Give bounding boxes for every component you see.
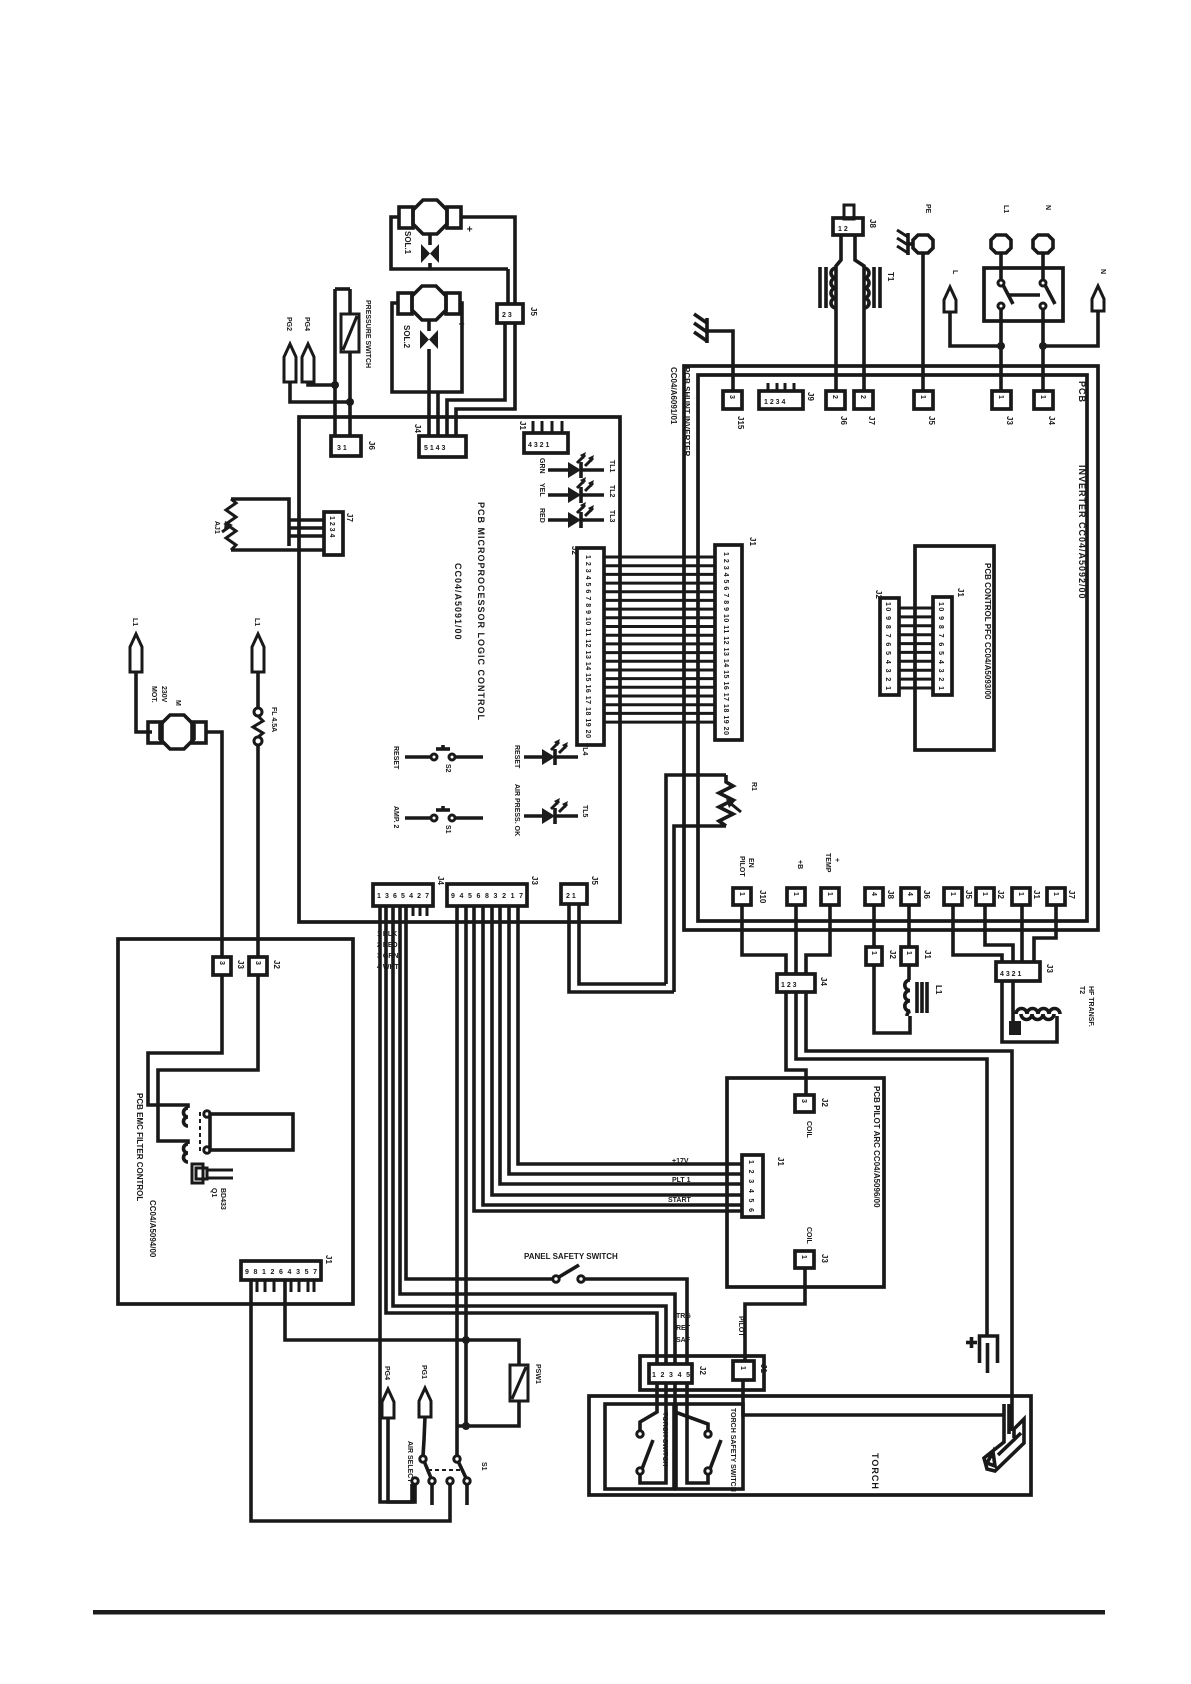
svg-text:3: 3: [728, 395, 735, 399]
svg-text:J7: J7: [867, 416, 876, 425]
svg-text:J8: J8: [886, 890, 895, 899]
svg-text:TORCH: TORCH: [870, 1453, 880, 1490]
connector B4: [865, 888, 883, 905]
connector B1: [733, 888, 751, 905]
connector PFC right: [933, 597, 952, 695]
svg-text:J2: J2: [888, 950, 897, 959]
faston terminal PG2: [284, 344, 296, 382]
PCB inverter board inner outline: [698, 375, 1087, 921]
svg-text:J15: J15: [736, 416, 745, 430]
footer rule: [93, 1610, 1105, 1615]
svg-text:1 2 3: 1 2 3: [781, 982, 797, 989]
transformer T1 right winding: [864, 268, 869, 308]
wire B7 to J18 pin2: [985, 905, 1013, 962]
wire T2 core tap: [1011, 981, 1015, 1021]
pushbutton S1: [405, 806, 483, 821]
svg-text:YEL: YEL: [538, 483, 545, 497]
wire R1 top leg: [666, 775, 726, 984]
connector C3: [826, 391, 845, 409]
torch switch contacts: [637, 1431, 653, 1474]
wire D5 to inductor L2: [907, 965, 911, 980]
svg-text:PLT 1: PLT 1: [672, 1177, 691, 1184]
connector B3: [821, 888, 839, 905]
relay coil 1: [184, 1108, 189, 1126]
svg-text:START: START: [668, 1197, 692, 1204]
svg-text:3: 3: [218, 961, 225, 965]
svg-text:N: N: [1044, 205, 1051, 210]
transformer T1 core right: [874, 267, 880, 308]
wire switch pole2 to C7: [1041, 309, 1045, 391]
wire torch pin1 to torch switch top: [640, 1383, 657, 1430]
wire pot bottom lead: [231, 548, 324, 552]
faston terminal PG4: [302, 344, 314, 382]
connector C7: [1034, 391, 1053, 409]
svg-text:GRN: GRN: [538, 458, 545, 474]
torch safety switch box: [676, 1404, 743, 1489]
svg-text:L1: L1: [1002, 205, 1009, 213]
wire PG4 to S3 contact: [388, 1418, 415, 1502]
svg-text:J2: J2: [272, 960, 281, 969]
wire PSW1 bottom lead: [457, 1401, 519, 1426]
svg-text:M: M: [174, 700, 181, 706]
PCB EMC filter control board outline: [118, 939, 353, 1304]
svg-text:230V: 230V: [160, 686, 167, 703]
connector J9: [561, 884, 587, 904]
svg-text:10 9 8 7 6 5 4 3 2 1: 10 9 8 7 6 5 4 3 2 1: [884, 602, 891, 690]
torch connector housing: [640, 1356, 764, 1390]
connector J2 filter: [213, 957, 231, 975]
wire J10 pin1 to air switch: [251, 1280, 450, 1521]
svg-text:2 1: 2 1: [566, 893, 576, 900]
svg-text:1 2 3 4: 1 2 3 4: [764, 399, 786, 406]
wire pressure switch top bridge: [335, 287, 350, 291]
svg-text:1 2 3 4 5: 1 2 3 4 5: [652, 1372, 690, 1379]
svg-text:J2: J2: [570, 546, 579, 555]
svg-text:3: 3: [800, 1099, 807, 1103]
relay contact 2: [204, 1147, 210, 1153]
faston terminal L1 fan: [130, 634, 142, 672]
svg-text:J1: J1: [776, 1157, 785, 1166]
switch S3 stub 1: [430, 1484, 434, 1505]
wire J8-1 to S3: [455, 906, 459, 1456]
svg-text:1 2 3 4: 1 2 3 4: [328, 516, 335, 538]
svg-text:2 3: 2 3: [502, 312, 512, 319]
connector B9: [1047, 888, 1065, 905]
svg-text:1: 1: [739, 1366, 746, 1370]
faston terminal switch left: [944, 287, 956, 312]
svg-text:+17V: +17V: [672, 1158, 689, 1165]
svg-text:BD433: BD433: [219, 1188, 226, 1210]
svg-text:J3: J3: [820, 1254, 829, 1263]
svg-text:J1: J1: [748, 537, 757, 546]
svg-text:RET: RET: [676, 1325, 691, 1332]
transformer T1 left winding: [831, 268, 836, 308]
svg-text:L1: L1: [131, 618, 138, 626]
torch body outline: [589, 1396, 1031, 1495]
main switch pole 2: [1040, 252, 1055, 309]
wire B4 to D4: [872, 905, 876, 947]
wire D4 to inductor L2: [874, 965, 910, 1033]
svg-text:PCB: PCB: [1077, 381, 1087, 403]
wire SOL2 stem to J4: [427, 356, 431, 436]
wire B6 to J18 pin1: [953, 905, 1002, 962]
wire B9 to J18 pin4: [1034, 905, 1056, 962]
svg-text:TL3: TL3: [608, 510, 615, 523]
wire J8-4 to pilot connector: [483, 906, 742, 1205]
svg-text:3: 3: [254, 961, 261, 965]
svg-text:J4: J4: [413, 424, 422, 433]
svg-text:1: 1: [870, 951, 877, 955]
wire J8-6 to pilot connector: [500, 906, 742, 1184]
svg-text:J6: J6: [922, 890, 931, 899]
connector B6: [944, 888, 962, 905]
svg-text:J4: J4: [436, 876, 445, 885]
svg-text:PCB EMC FILTER CONTROL: PCB EMC FILTER CONTROL: [135, 1093, 144, 1201]
svg-text:PCB PILOT ARC CC04/A5096/00: PCB PILOT ARC CC04/A5096/00: [872, 1086, 881, 1208]
wire J19 pin1 to pilot board J20: [786, 992, 806, 1095]
wire J22 to torch pilot connector: [745, 1268, 805, 1361]
svg-text:1: 1: [919, 395, 926, 399]
connector J5b pressure input: [331, 436, 361, 456]
svg-text:J1: J1: [923, 950, 932, 959]
svg-text:4: 4: [870, 892, 877, 896]
connector C2 aux: [759, 383, 803, 409]
svg-text:J8: J8: [868, 219, 877, 228]
wire J8-3 to pilot connector: [474, 906, 742, 1211]
wire faston to fuse: [256, 672, 260, 709]
svg-text:9 8 1 2 6 4 3 5 7: 9 8 1 2 6 4 3 5 7: [245, 1269, 317, 1276]
wire pilot connector to torch tip: [743, 1380, 1004, 1415]
wire pressure switch left leg: [333, 289, 337, 436]
wire J7-4 to panel safety switch: [406, 906, 552, 1279]
connector J1: [524, 421, 568, 453]
svg-text:PCB SHUNT INVERTER: PCB SHUNT INVERTER: [682, 367, 691, 457]
svg-text:+B: +B: [796, 860, 803, 869]
inductor L2: [905, 980, 927, 1016]
svg-text:10 9 8 7 6 5 4 3 2 1: 10 9 8 7 6 5 4 3 2 1: [937, 602, 944, 690]
connector J19 torch leads: [777, 974, 815, 992]
node junction dot A: [331, 381, 339, 389]
solenoid valve SOL1 body: [399, 200, 461, 234]
svg-text:RESET: RESET: [513, 745, 520, 769]
svg-text:1: 1: [905, 951, 912, 955]
svg-text:1: 1: [1039, 395, 1046, 399]
PCB control PFC outline: [915, 546, 994, 750]
wire pot top lead: [231, 499, 289, 546]
svg-text:AJ1: AJ1: [213, 521, 220, 534]
connector D5 below box: [901, 947, 917, 965]
svg-text:TEMP: TEMP: [824, 853, 831, 873]
svg-text:CC04/A5091/00: CC04/A5091/00: [453, 563, 463, 641]
wire SOL1 left loop: [391, 217, 508, 269]
faston terminal L1 fuse: [252, 634, 264, 672]
svg-text:J2: J2: [996, 890, 1005, 899]
fuse FL 4.5A: [253, 708, 263, 745]
wire J5 pin2 to J4: [456, 323, 515, 436]
svg-text:MOT.: MOT.: [150, 686, 157, 703]
switch S3 pole 1: [412, 1456, 435, 1484]
svg-text:PCB CONTROL PFC CC04/A5093/00: PCB CONTROL PFC CC04/A5093/00: [983, 563, 992, 700]
wire fan motor to J2: [206, 732, 222, 957]
potentiometer AJ1: [222, 499, 236, 550]
earth stud circle: [897, 230, 933, 255]
svg-text:PG4: PG4: [383, 1366, 390, 1380]
node junction dot B: [346, 398, 354, 406]
relay contact 1: [204, 1111, 210, 1117]
connector J21 pilot signals: [742, 1155, 763, 1217]
switch S3 pole 2: [447, 1456, 470, 1484]
solenoid valve SOL2 coil/valve symbol: [420, 320, 438, 356]
connector J7: [373, 884, 433, 906]
connector D4 below box: [866, 947, 882, 965]
connector J4 solenoid drive: [419, 436, 466, 457]
wire switch pole1 to C6: [999, 309, 1003, 391]
svg-text:1: 1: [738, 892, 745, 896]
svg-text:4: 4: [906, 892, 913, 896]
connector J24 torch pilot: [733, 1361, 754, 1380]
mains terminal N: [1033, 235, 1053, 253]
svg-text:J4: J4: [1047, 416, 1056, 425]
svg-text:J5: J5: [590, 876, 599, 885]
connector B7: [976, 888, 994, 905]
wire torch pin5 to safety switch bottom: [687, 1383, 708, 1483]
wire J8-2 to PSW1 node: [464, 906, 468, 1426]
svg-text:J9: J9: [806, 392, 815, 401]
faston terminal PG1 bottom: [419, 1388, 431, 1417]
svg-text:J3: J3: [1045, 964, 1054, 973]
svg-text:1 2 3 4 5 6 7 8 9 10 11 12 13: 1 2 3 4 5 6 7 8 9 10 11 12 13 14 15 16 1…: [584, 555, 591, 738]
wire J2 to relay coil 1: [148, 975, 222, 1108]
switch S3 stub 2: [465, 1484, 469, 1505]
connector J3 filter: [249, 957, 267, 975]
svg-text:CC04/A6091/01: CC04/A6091/01: [669, 367, 678, 425]
svg-text:PILOT: PILOT: [738, 856, 745, 877]
wire pressure switch right leg: [348, 289, 352, 436]
svg-text:AIR SELECT: AIR SELECT: [406, 1441, 413, 1483]
LED TL1: [548, 452, 604, 478]
connector J8: [447, 884, 527, 906]
svg-text:J7: J7: [345, 513, 354, 522]
switch S3 dashed link: [428, 1469, 462, 1471]
transformer T1 primary lead right: [855, 235, 864, 391]
svg-text:N: N: [1099, 269, 1106, 274]
connector J6 pot: [324, 512, 343, 555]
svg-text:TRG: TRG: [676, 1313, 691, 1320]
connector C4: [854, 391, 873, 409]
svg-text:RED: RED: [538, 508, 545, 523]
wire faston right to pole2: [1043, 311, 1098, 346]
svg-text:PILOT: PILOT: [737, 1316, 744, 1337]
LED TL3: [548, 502, 604, 528]
node dot PSW bottom: [462, 1422, 470, 1430]
faston terminal switch right: [1092, 286, 1104, 311]
wire J19 pin2 work lead: [796, 992, 987, 1336]
connector J10 pin stubs: [257, 1280, 314, 1292]
wire R1 bottom leg: [674, 826, 726, 992]
wire T2 loop: [1002, 981, 1057, 1042]
svg-text:TL2: TL2: [608, 485, 615, 498]
svg-text:T1: T1: [886, 272, 895, 282]
node dot pole1: [997, 342, 1005, 350]
main switch pole 1: [998, 252, 1013, 309]
svg-text:S2: S2: [444, 764, 451, 773]
wire faston to fan motor: [136, 672, 152, 732]
wire B3 to J19 pin3: [806, 905, 830, 974]
faston terminal PG4 bottom: [382, 1389, 394, 1418]
PCB inverter board outer outline: [684, 366, 1098, 930]
svg-text:1 2: 1 2: [838, 226, 848, 233]
transformer T1 connector: [833, 205, 863, 235]
svg-text:HF TRANSF.: HF TRANSF.: [1087, 986, 1094, 1027]
wire J9-1 to R1 bottom: [569, 904, 674, 992]
wire B8 to J18 pin3: [1020, 905, 1024, 962]
wire J8-5 to pilot connector: [492, 906, 742, 1195]
svg-text:Q1: Q1: [210, 1188, 217, 1197]
svg-text:J10: J10: [758, 890, 767, 904]
svg-text:J2: J2: [698, 1366, 707, 1375]
wire J5 pin1 to J4: [447, 323, 505, 436]
LED TL5: [524, 798, 578, 824]
svg-text:J3: J3: [236, 960, 245, 969]
svg-text:S1: S1: [444, 825, 451, 834]
wire J9-2 to R1 top: [579, 904, 666, 984]
PCB microprocessor logic control board outline: [299, 417, 620, 922]
wire J8-8 to pilot connector: [518, 906, 742, 1164]
svg-text:J1: J1: [1032, 890, 1041, 899]
wire J3 to relay coil 2: [158, 975, 258, 1144]
svg-text:L1: L1: [253, 618, 260, 626]
wire SOL1 right lead: [461, 217, 515, 304]
svg-text:1: 1: [981, 892, 988, 896]
svg-text:T2: T2: [1078, 986, 1085, 994]
mains terminal L1: [991, 235, 1011, 253]
svg-text:SOL.1: SOL.1: [403, 231, 412, 255]
svg-text:4 3 2 1: 4 3 2 1: [528, 442, 550, 449]
svg-text:1: 1: [1017, 892, 1024, 896]
main switch box: [984, 268, 1063, 321]
svg-text:J5: J5: [964, 890, 973, 899]
connector J13 ribbon right: [715, 545, 742, 740]
svg-text:J3: J3: [530, 876, 539, 885]
svg-text:EN: EN: [747, 858, 754, 868]
connector J3 ribbon left: [577, 548, 604, 745]
svg-text:J5: J5: [927, 416, 936, 425]
relay coil 2: [184, 1144, 189, 1162]
wire J19 pin3 electrode lead: [806, 992, 1012, 1431]
svg-text:S1: S1: [480, 1462, 487, 1471]
pressure switch PSW1 body: [510, 1365, 528, 1401]
wire SOL2 loop: [392, 303, 462, 392]
wire B1 to J19 pin1: [742, 905, 786, 974]
svg-text:FL 4.5A: FL 4.5A: [270, 707, 277, 732]
wire torch pin2 to torch switch bottom: [640, 1383, 666, 1483]
transformer T1 core left: [820, 267, 826, 308]
wire J8-7 to pilot connector: [509, 906, 742, 1174]
connector J18 HF: [996, 962, 1040, 981]
svg-text:L: L: [951, 270, 958, 275]
svg-text:COIL: COIL: [805, 1227, 812, 1244]
svg-text:J1: J1: [518, 421, 527, 430]
svg-text:TORCH SWITCH: TORCH SWITCH: [661, 1412, 668, 1466]
wire J7-3 to torch connector pin3: [400, 906, 675, 1364]
wire B2 to J19 pin2: [794, 905, 798, 974]
torch switch box: [605, 1404, 674, 1489]
svg-text:PCB MICROPROCESSOR LOGIC CONTR: PCB MICROPROCESSOR LOGIC CONTROL: [476, 502, 486, 721]
wire torch pin3 to safety switch top: [675, 1383, 708, 1430]
pressure switch PSW body: [341, 314, 359, 352]
svg-text:R1: R1: [750, 782, 757, 791]
svg-text:2: 2: [831, 395, 838, 399]
svg-text:CC04/A5094/00: CC04/A5094/00: [148, 1200, 157, 1258]
connector J20 pilot top: [795, 1095, 814, 1112]
svg-text:RESET: RESET: [392, 746, 399, 770]
earth symbol top left: [694, 314, 707, 343]
svg-text:INVERTER CC04/A5092/00: INVERTER CC04/A5092/00: [1077, 465, 1087, 600]
wire SOL2 rail tap to J4: [436, 392, 440, 436]
wire faston left to pole1: [950, 312, 1001, 346]
svg-text:SOL.2: SOL.2: [402, 325, 411, 349]
svg-text:9 4 5 6 8 3 2 1 7: 9 4 5 6 8 3 2 1 7: [451, 893, 523, 900]
solenoid valve SOL2 body: [398, 286, 460, 320]
wire earth to connector C1: [707, 331, 733, 391]
svg-text:J1: J1: [956, 588, 965, 597]
resistor R1 rheostat: [719, 775, 741, 826]
ribbon cable PFC 10 way: [899, 608, 933, 688]
svg-text:1 2 3 4 5 6 7 8 9 10 11 12 13: 1 2 3 4 5 6 7 8 9 10 11 12 13 14 15 16 1…: [722, 552, 729, 735]
svg-text:J3: J3: [1005, 416, 1014, 425]
svg-text:TORCH SAFETY SWITCH: TORCH SAFETY SWITCH: [729, 1408, 736, 1492]
fan motor M1: [148, 715, 206, 749]
svg-text:J4: J4: [819, 977, 828, 986]
connector C6: [992, 391, 1011, 409]
wire earth stud to C5: [921, 253, 925, 391]
solenoid valve SOL1 coil/valve symbol: [421, 234, 439, 269]
svg-text:1: 1: [792, 892, 799, 896]
connector B8: [1012, 888, 1030, 905]
connector B2: [787, 888, 805, 905]
svg-text:1: 1: [997, 395, 1004, 399]
wire panel safety switch to torch connector pin5: [584, 1279, 687, 1364]
connector C1 earth: [723, 391, 742, 409]
wire pot tap 1: [289, 518, 324, 522]
connector J5 solenoid: [497, 304, 523, 323]
svg-text:1: 1: [800, 1255, 807, 1259]
wire pot tap 2: [289, 526, 324, 530]
LED TL4: [524, 739, 578, 765]
svg-text:J6: J6: [839, 416, 848, 425]
relay actuator dashed link: [199, 1112, 201, 1152]
svg-text:J2: J2: [874, 590, 883, 599]
node dot J8-2 PSW top: [462, 1336, 470, 1344]
svg-text:AMP. 2: AMP. 2: [392, 806, 399, 829]
svg-text:2: 2: [859, 395, 866, 399]
svg-text:PG4: PG4: [303, 317, 310, 331]
svg-text:J1: J1: [324, 1255, 333, 1264]
svg-text:PRESSURE SWITCH: PRESSURE SWITCH: [364, 300, 371, 368]
svg-text:PG1: PG1: [420, 1365, 427, 1379]
transformer T1 primary lead left: [836, 235, 841, 391]
wire J7-1 to torch connector pin1: [386, 906, 657, 1364]
torch safety switch contacts: [705, 1431, 721, 1474]
wire J10 pin5 to PSW1 node: [285, 1280, 466, 1340]
svg-text:J5: J5: [529, 307, 538, 316]
panel safety switch: [553, 1265, 584, 1282]
connector J23 torch strip: [649, 1364, 692, 1383]
svg-text:1 3 6 5 4 2 7: 1 3 6 5 4 2 7: [377, 893, 429, 900]
LED TL2: [548, 477, 604, 503]
pushbutton S2 RESET: [405, 745, 483, 760]
svg-text:PANEL SAFETY SWITCH: PANEL SAFETY SWITCH: [524, 1252, 618, 1261]
